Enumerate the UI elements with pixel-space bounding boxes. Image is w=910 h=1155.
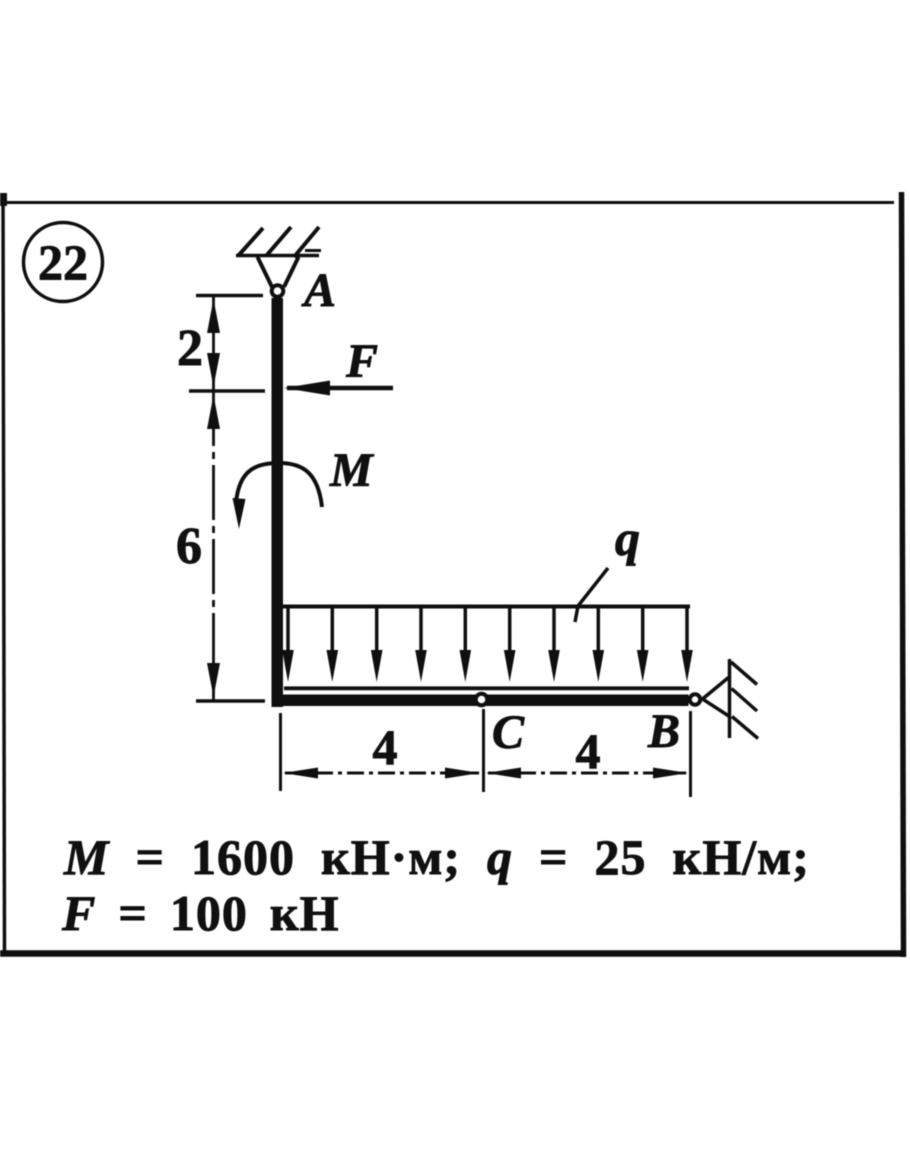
svg-text:C: C [492,706,525,759]
svg-text:M: M [329,444,375,497]
pin circle at node A [272,285,284,297]
pin support A (hatched ceiling + triangle) [236,227,321,287]
hinge C circle [476,694,488,706]
distributed load q (top line) [283,605,690,609]
horizontal beam corner to B (top edge line) [284,686,689,690]
distributed load arrows [282,608,693,682]
horizontal beam corner to B (thick bar) [272,695,689,707]
dimension extension tick at A level [196,294,263,298]
roller support B (pin circle) [690,694,700,704]
svg-text:F: F [345,335,378,388]
moment M arc with arrowhead [233,463,323,529]
svg-text:q: q [615,510,640,566]
label q leader line [575,568,608,622]
svg-text:6: 6 [176,518,202,575]
svg-text:A: A [301,264,336,317]
svg-text:22: 22 [38,234,88,290]
dimension extension tick at F level [189,389,265,393]
force F arrow [284,381,393,396]
extension line below B [689,711,692,797]
svg-text:4: 4 [576,723,601,779]
support B hatching [731,662,758,739]
svg-text:B: B [647,705,680,758]
dimension extension tick at corner level [196,699,265,703]
frame (decorative) [0,192,905,957]
bottom dimension 4 (left span) [283,768,480,779]
support B triangle [703,678,730,717]
svg-text:F = 100 кН: F = 100 кН [61,885,340,941]
extension line below C [482,709,485,792]
svg-text:2: 2 [177,320,203,377]
dimension line 6 (vertical, F to corner) [207,391,220,700]
dimension line 2 (vertical, A to F) [207,296,220,391]
bottom dimension 4 (right span) [486,768,688,779]
extension line below corner [279,713,282,791]
problem number circle 22 [24,223,103,302]
support B wall bar [728,659,732,738]
svg-text:4: 4 [373,719,398,775]
svg-text:M = 1600 кН·м; q = 25 кН/м;: M = 1600 кН·м; q = 25 кН/м; [63,829,810,885]
vertical member from A to corner [272,298,284,707]
